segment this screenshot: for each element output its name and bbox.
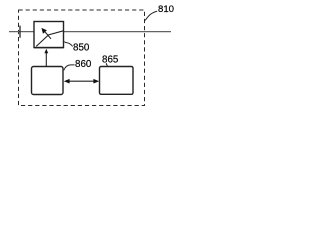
leader to 810: [145, 11, 157, 20]
box 850 (variable tuning element): [34, 22, 64, 48]
svg-text:860: 860: [75, 59, 92, 70]
bottom edge emphasis of box 850: [34, 47, 64, 49]
box 865 (memory): [100, 67, 134, 95]
variable arrow of 850 symbol: [41, 28, 51, 39]
double arrow between 860 and 865: [64, 79, 99, 84]
diagonal through-line of 850 symbol (bent): [36, 31, 64, 47]
wire: horizontal signal line: [9, 31, 171, 33]
leader to 850: [64, 42, 72, 47]
svg-text:865: 865: [102, 54, 119, 65]
leader to 865: [106, 63, 107, 66]
tick on signal line near dashed edge: [19, 26, 21, 38]
leader to 860: [64, 65, 75, 70]
dashed module box 810: [19, 10, 145, 106]
svg-text:850: 850: [73, 42, 90, 53]
svg-text:810: 810: [158, 4, 174, 15]
box 860 (controller): [32, 67, 64, 95]
arrow 860 to 850 (up arrow): [44, 49, 48, 67]
